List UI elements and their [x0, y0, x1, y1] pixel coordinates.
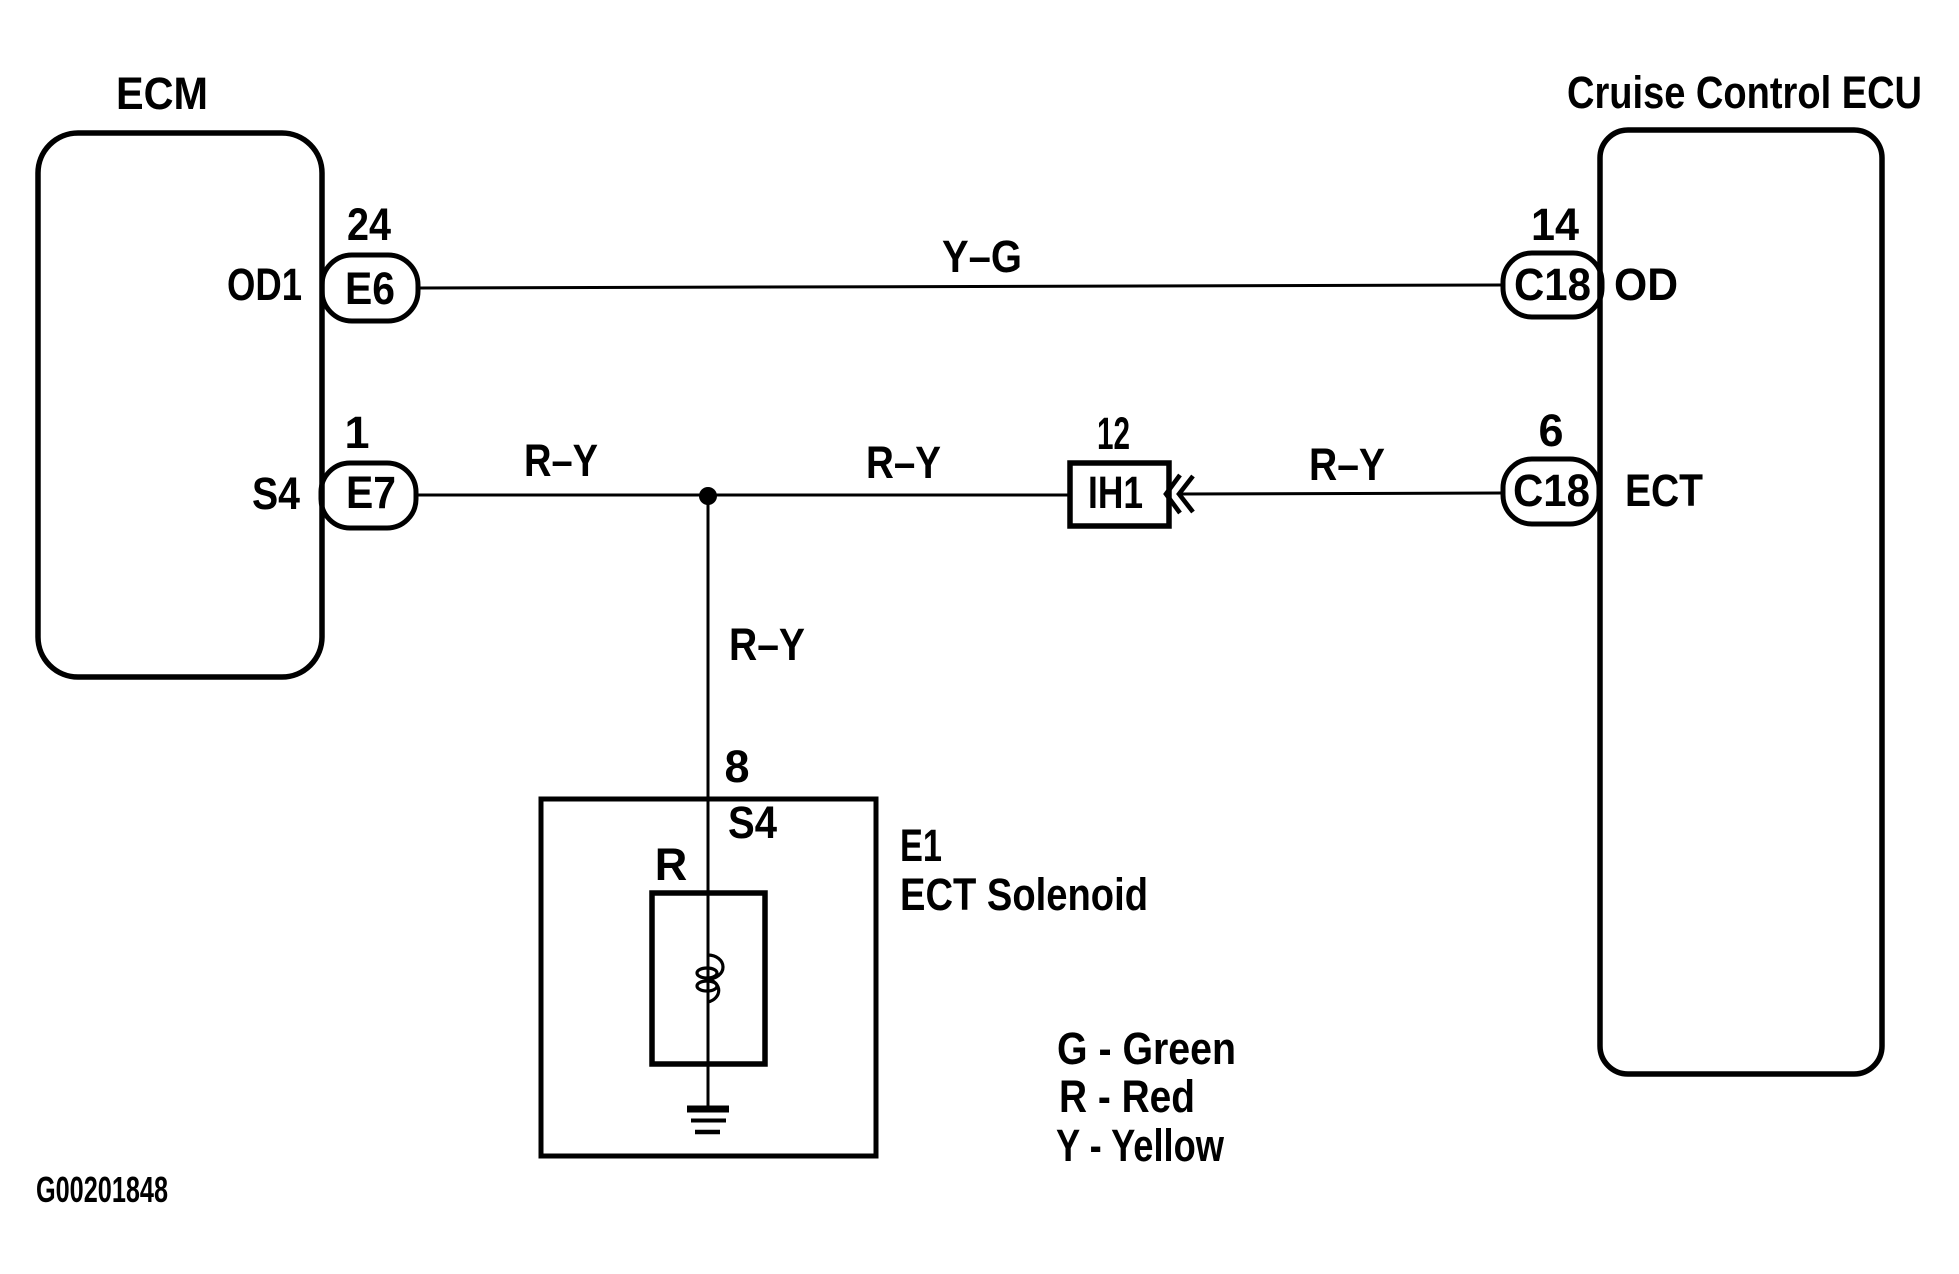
svg-text:1: 1 [344, 407, 369, 458]
solenoid coil L1 [697, 955, 723, 1002]
svg-text:Y–G: Y–G [942, 231, 1022, 282]
wire R-Y from junction to IH1 [708, 494, 1070, 497]
svg-text:R - Red: R - Red [1059, 1071, 1195, 1122]
svg-text:OD: OD [1614, 259, 1678, 310]
svg-text:OD1: OD1 [227, 259, 302, 310]
svg-text:R–Y: R–Y [866, 437, 941, 488]
svg-text:R–Y: R–Y [524, 435, 598, 486]
junction node [699, 487, 717, 505]
svg-text:8: 8 [724, 741, 749, 792]
svg-text:24: 24 [347, 199, 391, 250]
wire Y-G from E6 to C18 pin 14 [418, 285, 1504, 288]
svg-text:ECM: ECM [116, 68, 208, 119]
svg-text:E6: E6 [345, 263, 395, 314]
svg-text:G00201848: G00201848 [36, 1169, 168, 1210]
svg-text:C18: C18 [1513, 465, 1590, 516]
svg-text:C18: C18 [1514, 259, 1591, 310]
svg-text:E7: E7 [346, 467, 396, 518]
svg-text:IH1: IH1 [1088, 467, 1143, 518]
svg-text:S4: S4 [252, 468, 300, 519]
connector E7 [321, 463, 416, 528]
ground [687, 1109, 729, 1132]
wire R-Y from junction down to ECT solenoid [707, 495, 710, 1106]
connector C18 (pin 6) [1503, 459, 1599, 524]
wire R-Y from arrow to C18 pin 6 [1179, 493, 1503, 494]
solenoid coil enclosure [652, 893, 765, 1064]
svg-text:E1: E1 [900, 820, 942, 871]
ECT solenoid box E1 [541, 799, 876, 1156]
svg-text:Cruise Control ECU: Cruise Control ECU [1567, 67, 1922, 118]
svg-text:R: R [655, 839, 688, 890]
svg-text:ECT: ECT [1625, 465, 1703, 516]
svg-text:Y - Yellow: Y - Yellow [1056, 1120, 1225, 1171]
connector C18 (pin 14) [1503, 253, 1602, 317]
ECM box [38, 133, 322, 677]
svg-text:12: 12 [1097, 408, 1130, 459]
svg-text:G - Green: G - Green [1057, 1023, 1236, 1074]
arrow chevron 1 into IH1 [1166, 475, 1180, 513]
connector E6 [322, 255, 418, 321]
svg-text:R–Y: R–Y [729, 619, 805, 670]
wire R-Y from E7 to junction [416, 494, 708, 497]
connector IH1 [1070, 463, 1169, 526]
arrow chevron 2 into IH1 [1179, 476, 1193, 512]
svg-text:6: 6 [1538, 405, 1563, 456]
svg-text:S4: S4 [728, 797, 777, 848]
svg-text:R–Y: R–Y [1309, 439, 1385, 490]
svg-text:14: 14 [1531, 199, 1579, 250]
Cruise Control ECU box [1600, 130, 1882, 1074]
svg-text:ECT Solenoid: ECT Solenoid [900, 869, 1148, 920]
